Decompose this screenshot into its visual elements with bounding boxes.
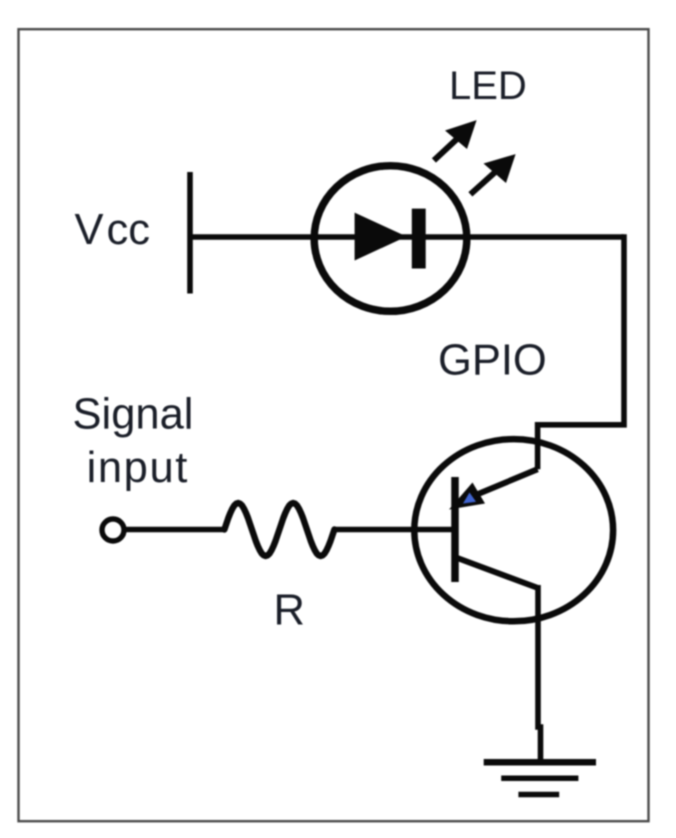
power rail Vcc — [187, 172, 193, 294]
wire transistor emitter to ground — [538, 585, 541, 762]
wire Vcc rail to LED and GPIO rail corner — [190, 234, 624, 240]
svg-text:GPIO: GPIO — [438, 337, 547, 385]
svg-text:Vcc: Vcc — [75, 206, 151, 254]
label R — [274, 587, 305, 635]
resistor R — [224, 503, 334, 556]
wire input terminal to resistor — [124, 527, 224, 533]
node signal input terminal — [102, 519, 124, 541]
label Signal input — [73, 391, 194, 493]
svg-text:LED: LED — [449, 64, 527, 108]
transistor — [414, 439, 613, 621]
label GPIO — [438, 337, 547, 385]
svg-text:R: R — [274, 587, 305, 635]
LED light arrow 1 — [434, 120, 477, 160]
LED light arrow 2 — [470, 154, 515, 194]
ground — [484, 762, 596, 794]
wire resistor to transistor base — [334, 527, 455, 533]
wire GPIO rail down to transistor collector — [538, 234, 624, 469]
svg-text:input: input — [87, 444, 189, 492]
svg-text:Signal: Signal — [73, 391, 194, 439]
label Vcc — [75, 206, 151, 254]
LED — [314, 166, 467, 312]
label LED — [449, 64, 527, 108]
